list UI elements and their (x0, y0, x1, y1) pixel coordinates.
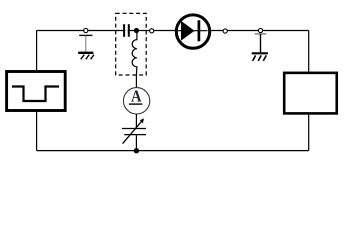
svg-text:A: A (131, 87, 142, 106)
